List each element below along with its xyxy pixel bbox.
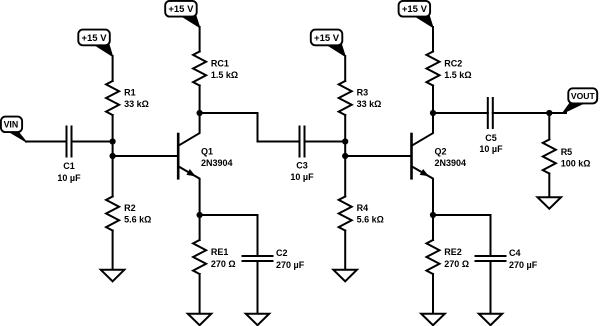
wire +15V to RC2: [432, 27, 434, 52]
emitter lead Q1: [178, 166, 199, 215]
ground (RE2): [421, 314, 445, 326]
wire RE1 to ground: [199, 274, 201, 314]
svg-text:R4: R4: [357, 203, 369, 213]
resistor RC1: [193, 52, 206, 86]
svg-text:C1: C1: [63, 161, 75, 171]
svg-text:C5: C5: [485, 133, 497, 143]
svg-text:5.6 kΩ: 5.6 kΩ: [124, 215, 151, 225]
svg-text:10 µF: 10 µF: [57, 173, 81, 183]
base bar Q1: [177, 134, 180, 178]
svg-text:Q2: Q2: [435, 146, 447, 156]
node A junction: [110, 138, 116, 144]
supply flag +15V (RC2): [414, 14, 433, 27]
svg-text:2N3904: 2N3904: [201, 158, 233, 168]
resistor R3: [339, 81, 352, 115]
wire base of Q2: [345, 155, 411, 157]
svg-text:C3: C3: [296, 160, 308, 170]
resistor RE2: [427, 240, 440, 274]
wire emitter to C2: [200, 214, 258, 216]
supply flag +15V (R1): [94, 43, 113, 57]
wire RC1 to collector node: [199, 86, 201, 114]
wire VIN to C1: [26, 141, 67, 143]
ground (R4): [333, 270, 357, 282]
wire +15V to R1: [112, 56, 114, 81]
base bar Q2: [410, 134, 413, 178]
ground (C4): [479, 314, 502, 326]
svg-text:+15 V: +15 V: [314, 33, 340, 44]
svg-text:VIN: VIN: [4, 120, 19, 130]
ground (C2): [246, 314, 269, 326]
wire RE2 to ground: [432, 274, 434, 314]
collector lead Q2: [412, 113, 434, 146]
emitter lead Q2: [412, 166, 434, 215]
svg-text:VOUT: VOUT: [571, 91, 596, 101]
svg-text:RE2: RE2: [444, 247, 462, 257]
wire to C3: [258, 141, 300, 143]
capacitor C2: [243, 255, 273, 257]
base node junction 1: [110, 153, 116, 159]
svg-text:270 Ω: 270 Ω: [444, 259, 469, 269]
svg-text:10 µF: 10 µF: [290, 172, 314, 182]
resistor RE1: [193, 240, 206, 274]
node VIN flag: [7, 130, 27, 142]
emitter node 1 junction: [197, 212, 203, 218]
emitter node 2 junction: [430, 212, 436, 218]
emitter arrow Q2: [420, 169, 429, 176]
wire down to C4: [490, 215, 492, 256]
wire collector node right: [200, 112, 258, 114]
svg-text:270 µF: 270 µF: [276, 260, 305, 270]
svg-text:+15 V: +15 V: [168, 4, 194, 15]
resistor R4: [339, 197, 352, 231]
svg-text:RC1: RC1: [211, 59, 229, 69]
collector lead Q1: [178, 113, 199, 146]
svg-text:270 µF: 270 µF: [509, 260, 538, 270]
svg-text:1.5 kΩ: 1.5 kΩ: [444, 70, 471, 80]
svg-text:R1: R1: [124, 88, 136, 98]
capacitor C5: [487, 98, 489, 128]
svg-text:33 kΩ: 33 kΩ: [357, 99, 382, 109]
wire VOUT to R5: [548, 113, 550, 140]
svg-text:R5: R5: [561, 147, 573, 157]
wire emitter to C4: [433, 214, 491, 216]
svg-text:5.6 kΩ: 5.6 kΩ: [357, 215, 384, 225]
wire C2 to ground: [257, 261, 259, 314]
base node junction 2: [342, 153, 348, 159]
svg-text:R2: R2: [124, 203, 136, 213]
node VOUT junction: [546, 110, 552, 116]
svg-text:100 kΩ: 100 kΩ: [561, 159, 591, 169]
wire C3 to node B: [305, 141, 346, 143]
wire R1 to R2 rail: [112, 115, 114, 197]
svg-text:+15 V: +15 V: [402, 4, 428, 15]
collector node 2 junction: [430, 110, 436, 116]
wire +15V to RC1: [199, 27, 201, 52]
wire R3 to R4 rail: [344, 115, 346, 197]
wire collector node to C5: [433, 112, 488, 114]
supply flag +15V (R3): [326, 43, 345, 57]
wire C5 to VOUT node: [493, 112, 566, 114]
wire base of Q1: [113, 155, 179, 157]
svg-text:2N3904: 2N3904: [435, 158, 467, 168]
resistor R5: [543, 140, 556, 174]
svg-text:270 Ω: 270 Ω: [211, 259, 236, 269]
resistor R1: [106, 81, 119, 115]
svg-text:RE1: RE1: [211, 247, 229, 257]
node VOUT flag: [562, 102, 584, 114]
svg-text:Q1: Q1: [201, 146, 213, 156]
svg-text:+15 V: +15 V: [81, 33, 107, 44]
wire RC2 to collector node: [432, 86, 434, 114]
node B junction: [342, 138, 348, 144]
svg-text:RC2: RC2: [444, 59, 462, 69]
wire emitter to RE2: [432, 215, 434, 240]
capacitor C4: [476, 255, 506, 257]
svg-text:1.5 kΩ: 1.5 kΩ: [211, 70, 238, 80]
svg-text:33 kΩ: 33 kΩ: [124, 99, 149, 109]
ground (RE1): [188, 314, 212, 326]
capacitor C3: [299, 127, 301, 157]
ground (R2): [101, 270, 125, 282]
wire emitter to RE1: [199, 215, 201, 240]
supply flag +15V (RC1): [180, 14, 199, 27]
resistor RC2: [427, 52, 440, 86]
capacitor C1: [66, 127, 68, 157]
svg-text:C2: C2: [276, 248, 288, 258]
wire +15V to R3: [344, 56, 346, 81]
ground (R5): [538, 197, 562, 209]
wire R5 to ground: [548, 174, 550, 198]
resistor R2: [106, 197, 119, 231]
wire R2 to ground: [112, 231, 114, 270]
wire down to C2: [257, 215, 259, 256]
wire step down to C3 row: [257, 113, 259, 142]
svg-text:R3: R3: [357, 88, 369, 98]
wire R4 to ground: [344, 231, 346, 270]
svg-text:10 µF: 10 µF: [479, 144, 503, 154]
wire C1 to node A: [72, 141, 113, 143]
emitter arrow Q1: [186, 169, 195, 176]
wire C4 to ground: [490, 261, 492, 314]
collector node 1 junction: [197, 110, 203, 116]
svg-text:C4: C4: [509, 248, 521, 258]
